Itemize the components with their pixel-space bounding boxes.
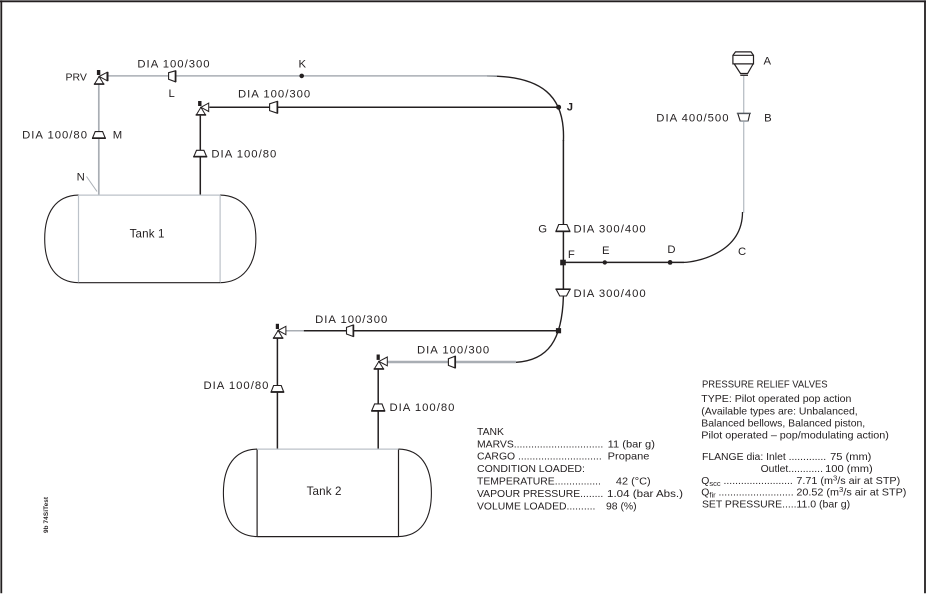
svg-text:DIA 100/80: DIA 100/80	[204, 380, 270, 392]
svg-text:SET PRESSURE.....: SET PRESSURE.....	[702, 499, 797, 510]
svg-text:75 (mm): 75 (mm)	[830, 452, 871, 463]
svg-text:7.71 (m3/s air at STP): 7.71 (m3/s air at STP)	[796, 473, 900, 487]
svg-text:9b 74SiTest: 9b 74SiTest	[43, 496, 50, 533]
svg-text:DIA 300/400: DIA 300/400	[574, 223, 647, 235]
svg-text:E: E	[602, 245, 610, 257]
svg-text:DIA 100/300: DIA 100/300	[238, 89, 311, 101]
svg-text:D: D	[667, 244, 675, 256]
svg-text:TANK: TANK	[477, 427, 504, 438]
svg-text:J: J	[567, 102, 573, 114]
svg-text:G: G	[538, 223, 547, 235]
svg-text:DIA 400/500: DIA 400/500	[656, 112, 729, 124]
svg-text:20.52 (m3/s air at STP): 20.52 (m3/s air at STP)	[796, 485, 906, 499]
svg-text:98 (%): 98 (%)	[606, 501, 637, 512]
svg-text:Qscc ........................: Qscc ........................	[701, 476, 793, 488]
svg-text:K: K	[299, 58, 307, 70]
svg-text:PRESSURE RELIEF VALVES: PRESSURE RELIEF VALVES	[702, 380, 828, 391]
svg-text:VAPOUR PRESSURE........: VAPOUR PRESSURE........	[477, 489, 603, 500]
svg-text:DIA 300/400: DIA 300/400	[574, 288, 647, 300]
svg-text:M: M	[113, 130, 122, 142]
svg-text:DIA 100/80: DIA 100/80	[390, 402, 456, 414]
svg-text:Balanced bellows, Balanced pis: Balanced bellows, Balanced piston,	[701, 418, 865, 429]
svg-text:Outlet............: Outlet............	[761, 464, 823, 475]
svg-text:11 (bar g): 11 (bar g)	[608, 439, 655, 450]
svg-text:TYPE: Pilot operated pop actio: TYPE: Pilot operated pop action	[701, 394, 851, 405]
svg-text:CARGO ........................: CARGO .............................	[477, 452, 602, 463]
svg-text:B: B	[764, 112, 772, 124]
svg-text:Tank 2: Tank 2	[307, 485, 342, 498]
svg-text:L: L	[169, 88, 175, 100]
svg-text:MARVS.........................: MARVS...............................	[477, 439, 603, 450]
svg-text:A: A	[764, 56, 772, 68]
svg-text:DIA 100/300: DIA 100/300	[315, 314, 388, 326]
svg-text:Qfir .........................: Qfir ..........................	[701, 488, 793, 500]
svg-text:Pilot operated – pop/modulatin: Pilot operated – pop/modulating action)	[701, 430, 889, 441]
svg-text:DIA 100/80: DIA 100/80	[22, 130, 88, 142]
svg-text:N: N	[77, 172, 85, 184]
svg-text:42 (°C): 42 (°C)	[616, 477, 651, 488]
svg-text:PRV: PRV	[66, 71, 87, 83]
svg-text:F: F	[568, 249, 575, 261]
svg-text:1.04 (bar Abs.): 1.04 (bar Abs.)	[607, 489, 683, 500]
svg-text:C: C	[738, 246, 746, 258]
svg-text:DIA 100/300: DIA 100/300	[137, 58, 210, 70]
svg-text:VOLUME LOADED..........: VOLUME LOADED..........	[477, 501, 595, 512]
svg-text:DIA 100/80: DIA 100/80	[211, 148, 277, 160]
svg-text:FLANGE dia: Inlet ............: FLANGE dia: Inlet .............	[702, 452, 826, 463]
svg-text:CONDITION LOADED:: CONDITION LOADED:	[477, 464, 585, 475]
svg-text:(Available types are: Unbalanc: (Available types are: Unbalanced,	[701, 406, 857, 417]
svg-text:Propane: Propane	[608, 452, 650, 463]
svg-text:TEMPERATURE................: TEMPERATURE................	[477, 477, 601, 488]
svg-text:Tank 1: Tank 1	[130, 228, 165, 241]
svg-text:DIA 100/300: DIA 100/300	[417, 345, 490, 357]
svg-text:11.0 (bar g): 11.0 (bar g)	[796, 499, 850, 510]
